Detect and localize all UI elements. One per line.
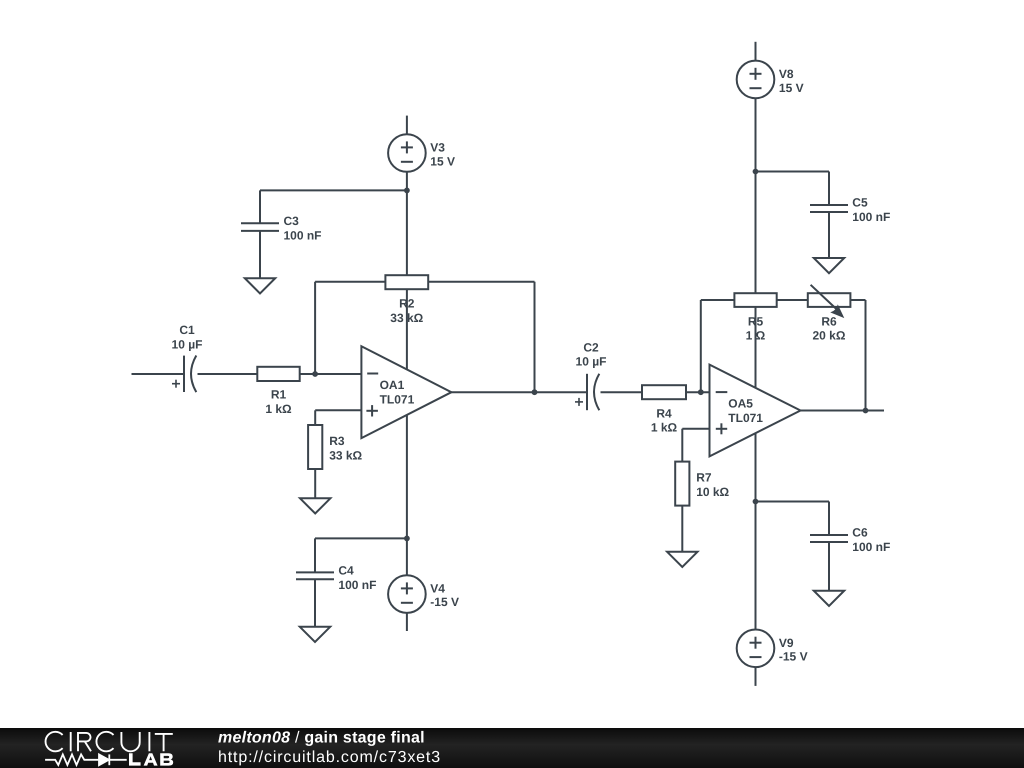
wire down to C6 [828,502,830,536]
resistor R1 [257,367,299,381]
wire node to C3 horizontal [260,189,407,191]
svg-text:OA1: OA1 [380,378,405,392]
wire feedback top left to R2 [315,281,385,283]
op-amp OA5 [710,365,801,457]
svg-text:15 V: 15 V [430,154,455,168]
svg-text:R7: R7 [696,471,712,485]
wire V3 bottom down through R2 to OA1 vplus [406,172,408,392]
resistor R7 [675,462,689,506]
svg-text:V8: V8 [779,67,794,81]
wire C2 to R4 [601,391,643,393]
resistor R4 [642,385,686,399]
capacitor C1 polarized [172,356,196,393]
junction node V9/C6 [753,499,759,505]
svg-text:C5: C5 [852,196,868,210]
wire V8 top stub [755,42,757,61]
svg-text:R1: R1 [271,388,287,402]
svg-text:100 nF: 100 nF [852,210,890,224]
svg-text:100 nF: 100 nF [852,540,890,554]
svg-text:V3: V3 [430,141,445,155]
capacitor C6 [810,535,848,542]
wire R1 to OA1 minus input [300,373,362,375]
svg-text:C1: C1 [179,323,195,337]
capacitor C5 [810,205,848,212]
svg-text:TL071: TL071 [380,393,415,407]
svg-text:C3: C3 [284,214,300,228]
svg-text:15 V: 15 V [779,81,804,95]
resistor R6 variable [808,285,851,317]
svg-text:R2: R2 [399,297,415,311]
wire R3 to ground [314,469,316,498]
wire R7 to ground [681,506,683,552]
ground under C5 [814,258,844,273]
wire C1 to R1 [198,373,258,375]
junction node OA5 output [863,408,869,414]
svg-text:10 µF: 10 µF [576,355,607,369]
svg-text:33 kΩ: 33 kΩ [390,311,423,325]
wire V8 down through R5 to OA5 vplus [755,98,757,410]
source V9 [737,630,775,668]
svg-text:R3: R3 [329,434,345,448]
svg-text:V9: V9 [779,636,794,650]
svg-text:10 µF: 10 µF [172,337,203,351]
svg-text:C6: C6 [852,526,868,540]
wire down to C3 [259,190,261,223]
junction node V3/C3 [404,188,410,194]
svg-text:R5: R5 [748,314,764,328]
svg-text:C4: C4 [338,564,354,578]
wire node to C4 horizontal [315,537,407,539]
wire OA1 vminus down to V4 [406,392,408,575]
junction node OA1 output [532,389,538,395]
wire V4 bottom stub [406,613,408,631]
wire feedback vertical right down to output [534,282,536,393]
wire down to C5 [828,172,830,206]
svg-text:1 Ω: 1 Ω [746,329,766,343]
capacitor C4 [296,572,334,579]
wire C5 to ground [828,212,830,258]
CircuitLab logo text LAB (drawn) [129,753,173,765]
ground under C3 [245,278,275,293]
svg-text:R6: R6 [821,314,837,328]
wire down to R7 [681,429,683,462]
svg-text:-15 V: -15 V [779,650,808,664]
source V3 [388,134,426,172]
svg-text:melton08 / gain stage final: melton08 / gain stage final [218,730,425,747]
wire OA5 output [801,410,885,412]
wire node to C6 horizontal [756,501,830,503]
svg-text:20 kΩ: 20 kΩ [813,329,846,343]
svg-text:10 kΩ: 10 kΩ [696,485,729,499]
svg-text:100 nF: 100 nF [338,578,376,592]
wire R6 to right corner [850,299,865,301]
svg-text:-15 V: -15 V [430,595,459,609]
junction node R4 out [698,389,704,395]
resistor R3 [308,425,322,469]
wire OA5 plus input [682,428,709,430]
wire OA1 output to C2 [451,391,587,393]
ground under R3 [300,498,330,513]
junction node V4/C4 [404,536,410,542]
wire feedback2 vertical left [700,300,702,392]
wire feedback vertical left [314,282,316,374]
svg-text:V4: V4 [430,582,445,596]
wire input to C1 [132,373,185,375]
ground under C4 [300,627,330,642]
wire R4 to OA5 minus input [686,391,710,393]
CircuitLab logo CIRCUIT (drawn letters) [46,732,173,752]
wire feedback2 vertical right down [865,300,867,411]
wire V9 bottom stub [755,667,757,686]
svg-text:100 nF: 100 nF [284,229,322,243]
junction node V8/C5 [753,169,759,175]
wire OA5 vminus down to V9 [755,411,757,630]
wire V3 top stub [406,116,408,135]
op-amp OA1 [361,346,451,438]
wire OA1 plus input [315,409,361,411]
resistor R2 [385,275,428,289]
wire down to R3 [314,410,316,425]
logo resistor-diode symbol [45,754,127,765]
source V4 [388,575,426,613]
junction node R1 out [312,371,318,377]
wire C4 to ground [314,579,316,627]
svg-text:TL071: TL071 [728,411,763,425]
capacitor C2 polarized [575,374,599,411]
svg-text:33 kΩ: 33 kΩ [329,448,362,462]
wire node to C5 horizontal [756,171,830,173]
wire C6 to ground [828,542,830,591]
wire down to C4 [314,538,316,572]
wire R2 to feedback right corner [428,281,534,283]
svg-text:R4: R4 [656,406,672,420]
source V8 [737,61,775,99]
svg-text:C2: C2 [583,340,599,354]
capacitor C3 [241,223,279,231]
ground under R7 [667,552,697,567]
wire feedback2 top to R5 [701,299,735,301]
svg-text:1 kΩ: 1 kΩ [651,421,678,435]
resistor R5 [734,293,776,307]
wire R5 to R6 [777,299,808,301]
ground under C6 [814,591,844,606]
svg-text:http://circuitlab.com/c73xet3: http://circuitlab.com/c73xet3 [218,749,441,766]
svg-text:1 kΩ: 1 kΩ [265,402,292,416]
svg-text:OA5: OA5 [728,397,753,411]
wire C3 to ground [259,231,261,278]
